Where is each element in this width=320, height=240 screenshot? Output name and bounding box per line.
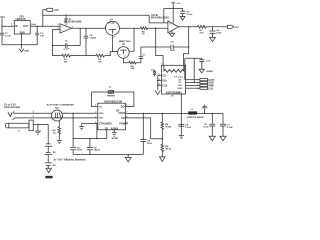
ferrite bead L2 [107,86,116,97]
wire U3 bottom pin to rail [180,94,182,135]
svg-text:AD7376BM1: AD7376BM1 [166,90,182,94]
ground R9 [57,136,62,144]
microphone labels [47,104,74,109]
connector J1 labels [208,80,215,91]
op-amp U2-A [60,24,72,33]
wire feedback net [141,46,189,48]
capacitor C12 [140,113,152,154]
node cap rail C11 junction [89,154,90,155]
transistor Q2 [118,47,130,59]
svg-text:CS: CS [162,75,166,78]
svg-text:+5V: +5V [54,9,59,12]
resistor R4 [96,54,105,63]
svg-text:LM78L05: LM78L05 [16,19,27,21]
svg-text:MMBT3904: MMBT3904 [119,40,132,43]
svg-text:FB: FB [121,117,125,120]
svg-text:ADC0832CIN: ADC0832CIN [104,100,122,104]
digital pot U3 labels [162,75,182,95]
wire U5 AGND pin [113,130,115,133]
wire U5 pin4 ground feed [82,123,95,126]
svg-text:AGND: AGND [112,137,119,140]
capacitor C13 [178,124,191,129]
capacitor C16 test point [202,105,207,114]
ground C8 [210,37,216,41]
svg-text:CLK: CLK [208,88,213,90]
node V+ junction [173,8,174,9]
ground C13 [179,135,184,138]
svg-text:1: 1 [161,64,162,66]
battery B2 [45,163,57,168]
node output junction [188,26,189,27]
svg-text:5v "AA" Alkaline Batteries: 5v "AA" Alkaline Batteries [54,158,87,161]
svg-text:4.99k: 4.99k [165,126,171,129]
node mic junction [73,113,74,114]
svg-text:22uF: 22uF [147,143,153,145]
svg-text:IN: IN [15,26,18,28]
wire U2-A -input [53,29,61,45]
capacitor C15 [220,113,233,136]
svg-text:CLK: CLK [162,84,167,87]
wire bottom cap rail [73,153,143,155]
svg-text:0.68uF: 0.68uF [89,37,97,39]
resistor R7 [198,25,206,34]
pin numbers U5 right [126,105,127,124]
op-amp U2-B labels [151,13,169,20]
node C8 junction [212,26,213,27]
pin numbers U3 top [161,64,185,66]
wire U3 left pin bus [158,76,162,90]
node C5 junction [52,45,53,46]
ground C15 [220,136,226,141]
ground R9b [160,157,166,162]
node U2-A V+ tap [65,15,66,16]
svg-text:SDI: SDI [162,79,166,82]
node ground rail junction [21,44,22,45]
ground U5 AGND [112,133,119,140]
svg-text:49.9k: 49.9k [165,148,171,151]
wire Q2 emitter [123,58,128,63]
svg-text:U2-A: U2-A [64,17,70,21]
digital pot U3 right pin labels [178,79,183,90]
svg-text:10uF: 10uF [203,126,209,128]
svg-text:FERRITE BEAD: FERRITE BEAD [187,116,204,119]
capacitor C14 [203,113,215,136]
capacitor C11 [87,139,101,155]
wire VOUT rail [128,112,223,114]
svg-text:1uF: 1uF [40,36,45,38]
wire FB divider tap [128,118,162,139]
node test point junction [204,113,205,114]
ferrite bead L1 [187,109,204,119]
node -input junction [155,28,156,29]
svg-text:10uF: 10uF [216,33,222,35]
capacitor C5 [53,28,81,50]
voltage regulator VR1 box [14,21,30,35]
svg-text:MIC: MIC [55,107,60,109]
svg-text:GND: GND [20,33,26,35]
capacitor C2 [35,26,44,44]
svg-text:MAX4239-ASA8: MAX4239-ASA8 [151,16,169,19]
ground battery [45,168,52,178]
capacitor C8 [210,27,223,38]
ground plug [35,124,41,134]
wire feedback to -input [155,28,157,47]
jack input labels [4,104,20,110]
svg-text:ELECTRET CONDENSER: ELECTRET CONDENSER [47,104,74,106]
wire U2-B output [179,26,198,28]
node C5 feedback junction [80,28,81,29]
node Q2 collector junction [133,28,134,29]
wire U3 right pins to J1 [186,80,200,89]
svg-text:(+5v): (+5v) [31,24,37,26]
svg-text:TO-46: TO-46 [108,22,115,25]
svg-text:1: 1 [105,27,106,29]
svg-text:CS: CS [99,106,103,108]
svg-text:GND: GND [24,51,29,53]
node C4 bottom junction [85,55,86,56]
wire C9 net [185,58,202,82]
svg-text:CLK: CLK [178,85,183,87]
ground C14 [209,136,215,141]
svg-text:CH1: CH1 [99,118,104,120]
transistor Q1 [105,21,120,38]
wire R4 to Q2 base [105,52,118,56]
power flag +5V [47,8,59,12]
pin numbers U3 left [159,74,160,86]
capacitor C4 [84,28,97,55]
resistor R5 [140,27,147,36]
wire U2-B V+ [172,3,174,23]
wire jack tip to mic [13,112,51,114]
resistor R9b [161,139,172,157]
ground U3 bus [155,89,160,94]
wire Q1 emitter [112,35,114,51]
node divider junction [162,138,163,139]
svg-text:-: - [169,27,170,31]
battery B1 [45,144,57,163]
node pin3 junction [73,117,74,118]
svg-text:10uF: 10uF [77,150,83,152]
svg-text:GND: GND [208,83,214,85]
diode D1 [151,70,156,77]
wire plug sleeve [33,123,48,125]
svg-text:10uF: 10uF [170,50,176,52]
wire regulator GND stub [21,34,23,45]
svg-text:AGND: AGND [206,70,213,73]
svg-text:CH0: CH0 [99,113,104,115]
svg-text:OUT1: OUT1 [208,80,215,82]
wire input rail to regulator [2,25,14,27]
pin numbers U5 left [95,105,97,124]
node bottom rail left junction [73,138,74,139]
wire R7 to out [206,26,228,28]
node U3 rail junction [181,113,182,114]
digital pot U3 internal resistor [164,65,184,72]
op-amp U2-A labels [64,17,82,24]
svg-text:GND: GND [178,88,183,90]
svg-text:e: e [120,54,121,56]
wire U2-B +input bias [149,15,168,23]
svg-text:-: - [61,29,62,33]
svg-text:1: 1 [197,80,198,82]
node U3 bus junctions [157,80,158,86]
capacitor C7 [136,47,146,63]
node +5v rail junction [42,15,43,16]
wire jack ring to U5 pin3 [15,117,95,119]
wire mic output [63,112,95,114]
wire output to feedback net [188,27,190,47]
svg-text:DO: DO [121,106,125,109]
svg-text:100uF: 100uF [94,150,101,152]
wire ground rail under regulator [2,44,37,46]
digital pot U3 box [162,65,186,94]
svg-text:0.1uF: 0.1uF [187,14,194,16]
svg-text:0.1uF: 0.1uF [5,36,12,38]
node C11 junction [89,138,90,139]
svg-text:MAX4239-ASA8: MAX4239-ASA8 [64,21,82,24]
wire R5 to U2-B -input [147,27,168,29]
node C2 junction [37,26,38,27]
wire Q2 collector riser [129,28,134,51]
op-amp U2-B [168,21,179,33]
svg-text:3: 3 [124,56,125,58]
wire mystery drop [96,123,98,138]
node C14 junction [212,113,213,114]
svg-text:PWR: PWR [208,86,214,88]
svg-text:OUT: OUT [23,26,29,28]
resistor R6 [129,61,136,70]
ground GND1 [19,45,29,53]
svg-text:CTRL/WES: CTRL/WES [99,123,112,126]
capacitor C3 [180,11,193,16]
node +5v riser junction [42,26,43,27]
svg-text:3: 3 [197,85,198,87]
jack ring contact [13,118,15,120]
svg-text:External Input: External Input [4,106,20,109]
node C12 junction [143,113,144,114]
node Q1 emitter / Q2 base junction [112,51,113,52]
adc U5 inside labels [99,106,127,131]
wire +5v top rail [43,14,149,16]
wire U2-A output to Q1 base [72,27,106,29]
svg-text:CT_L(x): CT_L(x) [174,77,183,79]
svg-text:U2-B: U2-B [151,13,157,17]
wire V+ branch [164,9,183,23]
wire U5 left pin stubs [94,107,97,124]
ground C3 [180,17,185,21]
wire U2-A V+ [65,15,67,25]
svg-text:FERRITE: FERRITE [107,96,116,98]
plug P1 pictorial [5,120,33,133]
wire Q1 collector [120,27,141,29]
capacitor C10 [70,139,83,155]
jack J2 symbol [8,111,14,116]
svg-text:1.5uF: 1.5uF [185,127,192,129]
wire mic node drop [72,113,74,138]
svg-text:OUT: OUT [235,27,239,29]
transistor Q2 labels [119,40,132,45]
wire 24v input drop [1,19,3,27]
power stub top [171,3,181,5]
svg-text:3: 3 [114,37,115,39]
svg-text:2: 2 [117,27,118,29]
resistor R9 [53,121,61,136]
wire R3 to C4 node [70,55,96,57]
svg-text:2: 2 [197,82,198,84]
voltage regulator VR1 labels [15,17,29,35]
node C4 top junction [85,28,86,29]
ground cap rail [125,154,131,162]
node R8 junction [162,113,163,114]
connector OUT flag [228,25,240,29]
svg-text:3.3uF: 3.3uF [63,48,70,50]
wire +5v output rail [30,25,60,27]
microphone MK1 [52,110,63,121]
node input junction [1,26,2,27]
node bottom rail mid junction [96,138,97,139]
node cap rail ground junction [128,154,129,155]
pin numbers J1 [197,80,199,91]
svg-text:1uF: 1uF [206,61,211,63]
node feedback right junction [188,46,189,47]
ground C9 AGND [199,69,213,73]
capacitor C9 [199,58,211,69]
wire +5v riser [43,10,47,27]
wire U3 top right pin [183,47,188,65]
capacitor C6 [170,42,176,53]
capacitor C1 [0,26,11,44]
wire battery feed [47,124,49,143]
wire U5 right pin stubs [126,107,129,124]
svg-text:24v: 24v [0,15,5,19]
wire -input down to R3 rail [53,46,62,56]
resistor R8 [161,113,172,138]
ground U2-B V- [169,31,174,37]
wire U3 top left pin [156,47,163,65]
adc U5 box [98,103,126,130]
svg-text:0.1uF: 0.1uF [227,127,234,129]
wire bottom rail [73,138,107,140]
svg-text:VOUT: VOUT [118,112,125,115]
wire U5 CLK pin drop [106,130,108,139]
ground U5 pin4 [79,127,84,130]
resistor R3 [62,54,71,63]
node feedback left junction [155,46,156,47]
connector J1 [200,79,208,90]
wire U5 CS to DO loop [92,92,134,107]
node plug ground junction [37,124,38,125]
